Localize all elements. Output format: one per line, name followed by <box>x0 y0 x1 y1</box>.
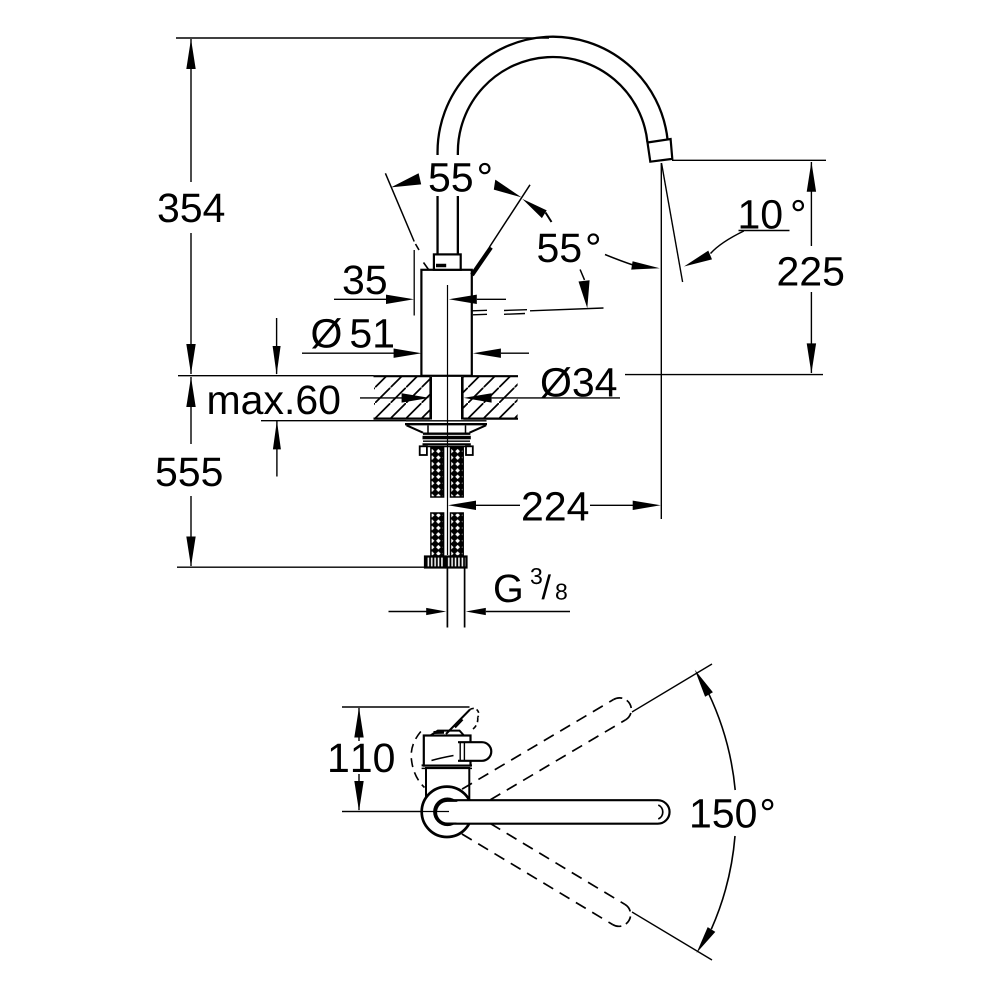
faucet body <box>421 270 471 376</box>
mounting cone <box>407 425 487 433</box>
10 degree slant line <box>662 163 683 282</box>
dim 225 top extension line <box>672 159 826 161</box>
supply hose right upper <box>451 447 464 497</box>
countertop top surface extension left <box>178 375 374 377</box>
dashed spout position upper <box>462 694 636 810</box>
dim 354 <box>159 39 225 374</box>
washer plate <box>405 421 487 424</box>
supply hose right lower <box>451 513 464 556</box>
top view body lower section <box>426 768 469 800</box>
angle 55 side leader to vertical <box>605 255 660 270</box>
top view centerline into circle <box>342 811 449 813</box>
top view lever cap dashed <box>470 708 479 729</box>
dim 110 top extension line <box>342 706 470 708</box>
top view capsule interior <box>437 802 475 823</box>
supply hose left lower <box>431 513 444 556</box>
dim 110 <box>330 708 394 812</box>
lever horizontal dashed position <box>472 308 604 315</box>
angle 55 top right arrow (bowtie upper) <box>494 180 522 198</box>
150 degree arc <box>708 693 735 790</box>
hose nut left <box>425 557 445 568</box>
150 arc arrow top <box>695 670 713 697</box>
top view handle dome bump <box>431 731 464 736</box>
dim max.60 <box>209 318 339 477</box>
centerline <box>447 285 449 555</box>
spout vertical reference line <box>660 163 662 519</box>
dim 555 <box>157 377 222 567</box>
supply hose left upper <box>431 447 444 497</box>
top view spout capsule inner cap arc <box>658 805 662 819</box>
rubber seal band <box>423 436 471 440</box>
spout end cap (aerator) <box>648 139 673 162</box>
countertop hatched section right <box>463 376 518 418</box>
top view dashed body outline left <box>411 732 424 788</box>
washer lines <box>423 441 471 446</box>
angle 55 top left arrow <box>391 173 421 187</box>
mounting shank walls <box>431 377 463 420</box>
dim 354 top extension line <box>176 37 549 39</box>
top view handle inner arc <box>432 756 454 761</box>
angle 10 label and leader <box>684 200 804 267</box>
top view body upper section <box>424 736 471 766</box>
150 degree arc extension line upper <box>632 664 712 712</box>
top view swivel circle <box>422 787 472 837</box>
dim 225 <box>779 162 844 374</box>
lever axis extension line <box>490 185 531 247</box>
G3/8 connection pipe <box>447 568 464 628</box>
angle 55 side arrow (bowtie lower) <box>522 199 551 222</box>
dim dia34 <box>360 367 620 402</box>
dim 224 <box>448 492 661 521</box>
angle 55 side label <box>538 233 599 262</box>
dim dia51 <box>302 318 529 358</box>
collar <box>434 254 461 269</box>
dashed spout position lower <box>462 814 635 931</box>
collar tick <box>436 264 446 268</box>
dim 35 <box>334 265 506 304</box>
top view spout capsule <box>447 800 669 824</box>
spout tube <box>448 47 658 257</box>
dashed lever position (up-left) <box>385 173 428 269</box>
angle 55 side down arrow <box>579 270 590 309</box>
150 degree arc extension line lower <box>632 912 712 960</box>
angle 55 top label <box>424 155 492 196</box>
top view body flange line <box>422 764 472 766</box>
dim 555 bottom extension line <box>177 566 425 568</box>
top view outlet stub <box>458 742 491 761</box>
countertop top surface extension right <box>625 374 823 376</box>
top view inner ring <box>433 798 462 827</box>
lever (solid) <box>472 247 491 275</box>
150 degree label <box>692 799 773 828</box>
dim max.60 lower extension line <box>261 420 406 422</box>
dim 110 bottom extension line <box>342 811 447 813</box>
hose nut right <box>446 557 467 568</box>
countertop hatched section left <box>374 376 430 418</box>
150 arc arrow bottom <box>697 927 716 953</box>
G3/8 dimension <box>389 568 571 615</box>
mounting nut tabs <box>420 446 473 455</box>
dim 35 extension line <box>413 250 415 316</box>
top view lever pointing up-right <box>446 710 470 735</box>
